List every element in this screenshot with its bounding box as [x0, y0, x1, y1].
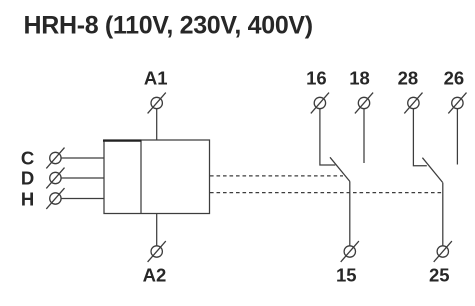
svg-text:16: 16 — [306, 68, 327, 89]
svg-text:A1: A1 — [144, 68, 168, 89]
svg-text:C: C — [21, 148, 34, 169]
svg-text:28: 28 — [398, 68, 419, 89]
svg-text:15: 15 — [336, 265, 357, 286]
svg-text:18: 18 — [349, 68, 370, 89]
svg-text:H: H — [21, 189, 34, 210]
svg-text:HRH-8 (110V, 230V, 400V): HRH-8 (110V, 230V, 400V) — [24, 12, 313, 40]
svg-text:D: D — [21, 168, 34, 189]
svg-text:A2: A2 — [143, 265, 167, 286]
svg-text:26: 26 — [444, 68, 465, 89]
svg-text:25: 25 — [429, 265, 450, 286]
